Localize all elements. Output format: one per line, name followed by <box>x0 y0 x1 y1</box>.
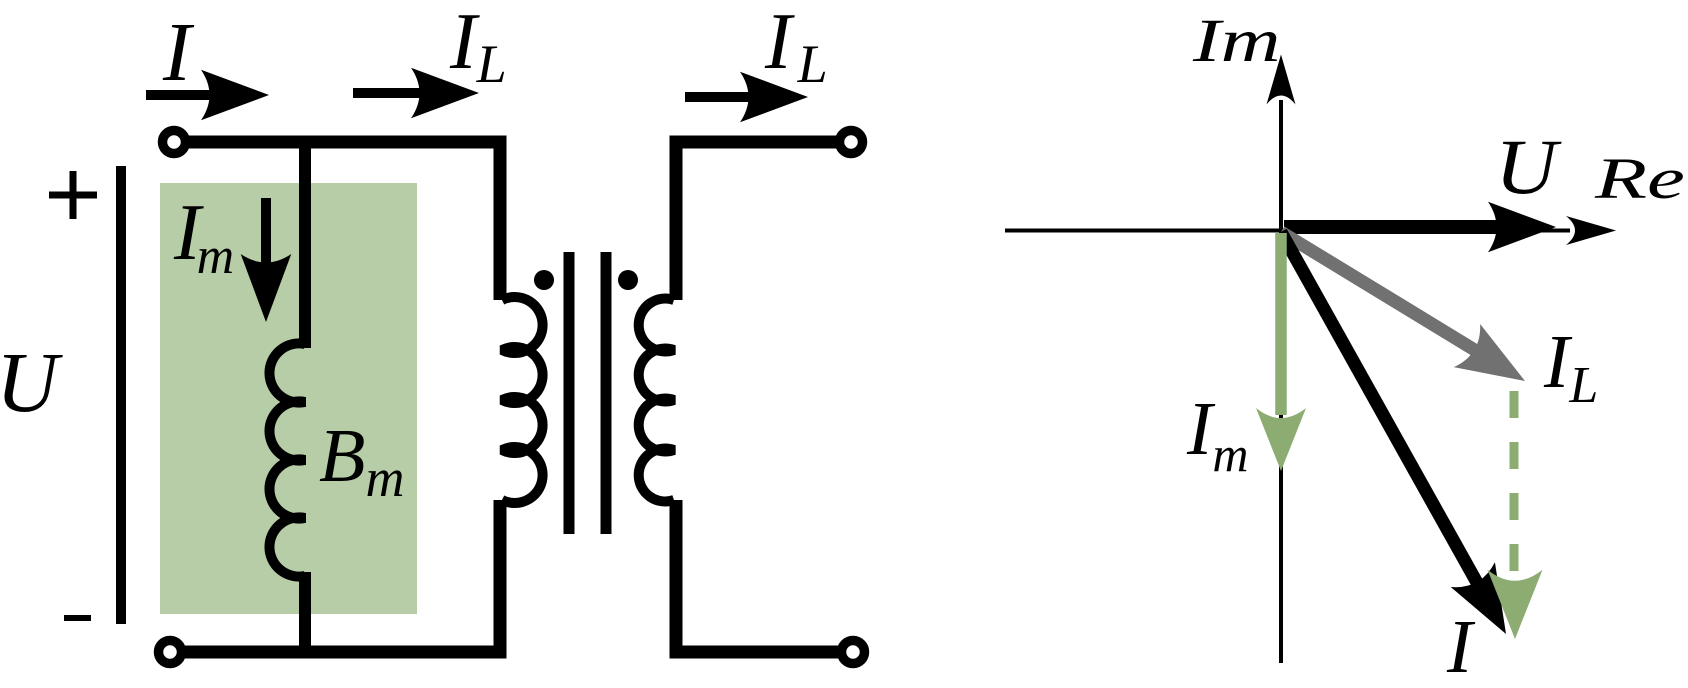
green highlight rectangle around magnetizing branch <box>160 183 417 614</box>
svg-text:Re: Re <box>1594 146 1685 210</box>
arrow I <box>146 70 269 121</box>
arrow IL (right) <box>685 72 808 123</box>
arrow Im (down) <box>241 198 292 322</box>
wire Bm branch bottom <box>299 572 311 652</box>
transformer secondary winding <box>639 298 674 501</box>
svg-text:U: U <box>1495 124 1562 211</box>
terminal top-right <box>840 131 863 154</box>
svg-text:I: I <box>162 6 195 99</box>
minus sign <box>64 615 91 621</box>
bottom wire (primary side) <box>184 500 500 652</box>
plus sign <box>49 171 97 219</box>
axis Re (horizontal) <box>1005 229 1570 233</box>
vector U <box>1284 202 1556 253</box>
svg-text:Im: Im <box>1192 7 1281 75</box>
terminal bottom-right <box>842 641 865 664</box>
svg-text:U: U <box>0 334 63 430</box>
transformer core bar left <box>564 252 575 534</box>
svg-text:IL: IL <box>764 0 828 94</box>
dot primary <box>534 270 554 290</box>
svg-text:I: I <box>1446 605 1476 688</box>
inductor Bm <box>269 343 305 576</box>
svg-text:IL: IL <box>449 0 507 94</box>
top wire (primary side) <box>186 142 500 300</box>
top wire (secondary side) <box>676 142 840 300</box>
vector I (black) <box>1281 232 1528 646</box>
transformer primary winding <box>502 297 543 503</box>
terminal top-left <box>163 131 186 154</box>
wire Bm branch top <box>299 142 311 348</box>
bottom wire (secondary side) <box>676 500 842 652</box>
svg-text:IL: IL <box>1543 320 1598 414</box>
voltage bar U <box>116 166 126 624</box>
dashed green projection IL to I <box>1488 391 1543 639</box>
axis Im (vertical) <box>1279 100 1283 663</box>
dot secondary <box>618 270 638 290</box>
vector IL (gray) <box>1281 232 1538 403</box>
svg-text:Im: Im <box>1186 387 1248 482</box>
vector Im (green) <box>1256 233 1306 471</box>
arrow IL (middle) <box>353 68 479 119</box>
terminal bottom-left <box>159 641 182 664</box>
transformer core bar right <box>601 252 612 534</box>
